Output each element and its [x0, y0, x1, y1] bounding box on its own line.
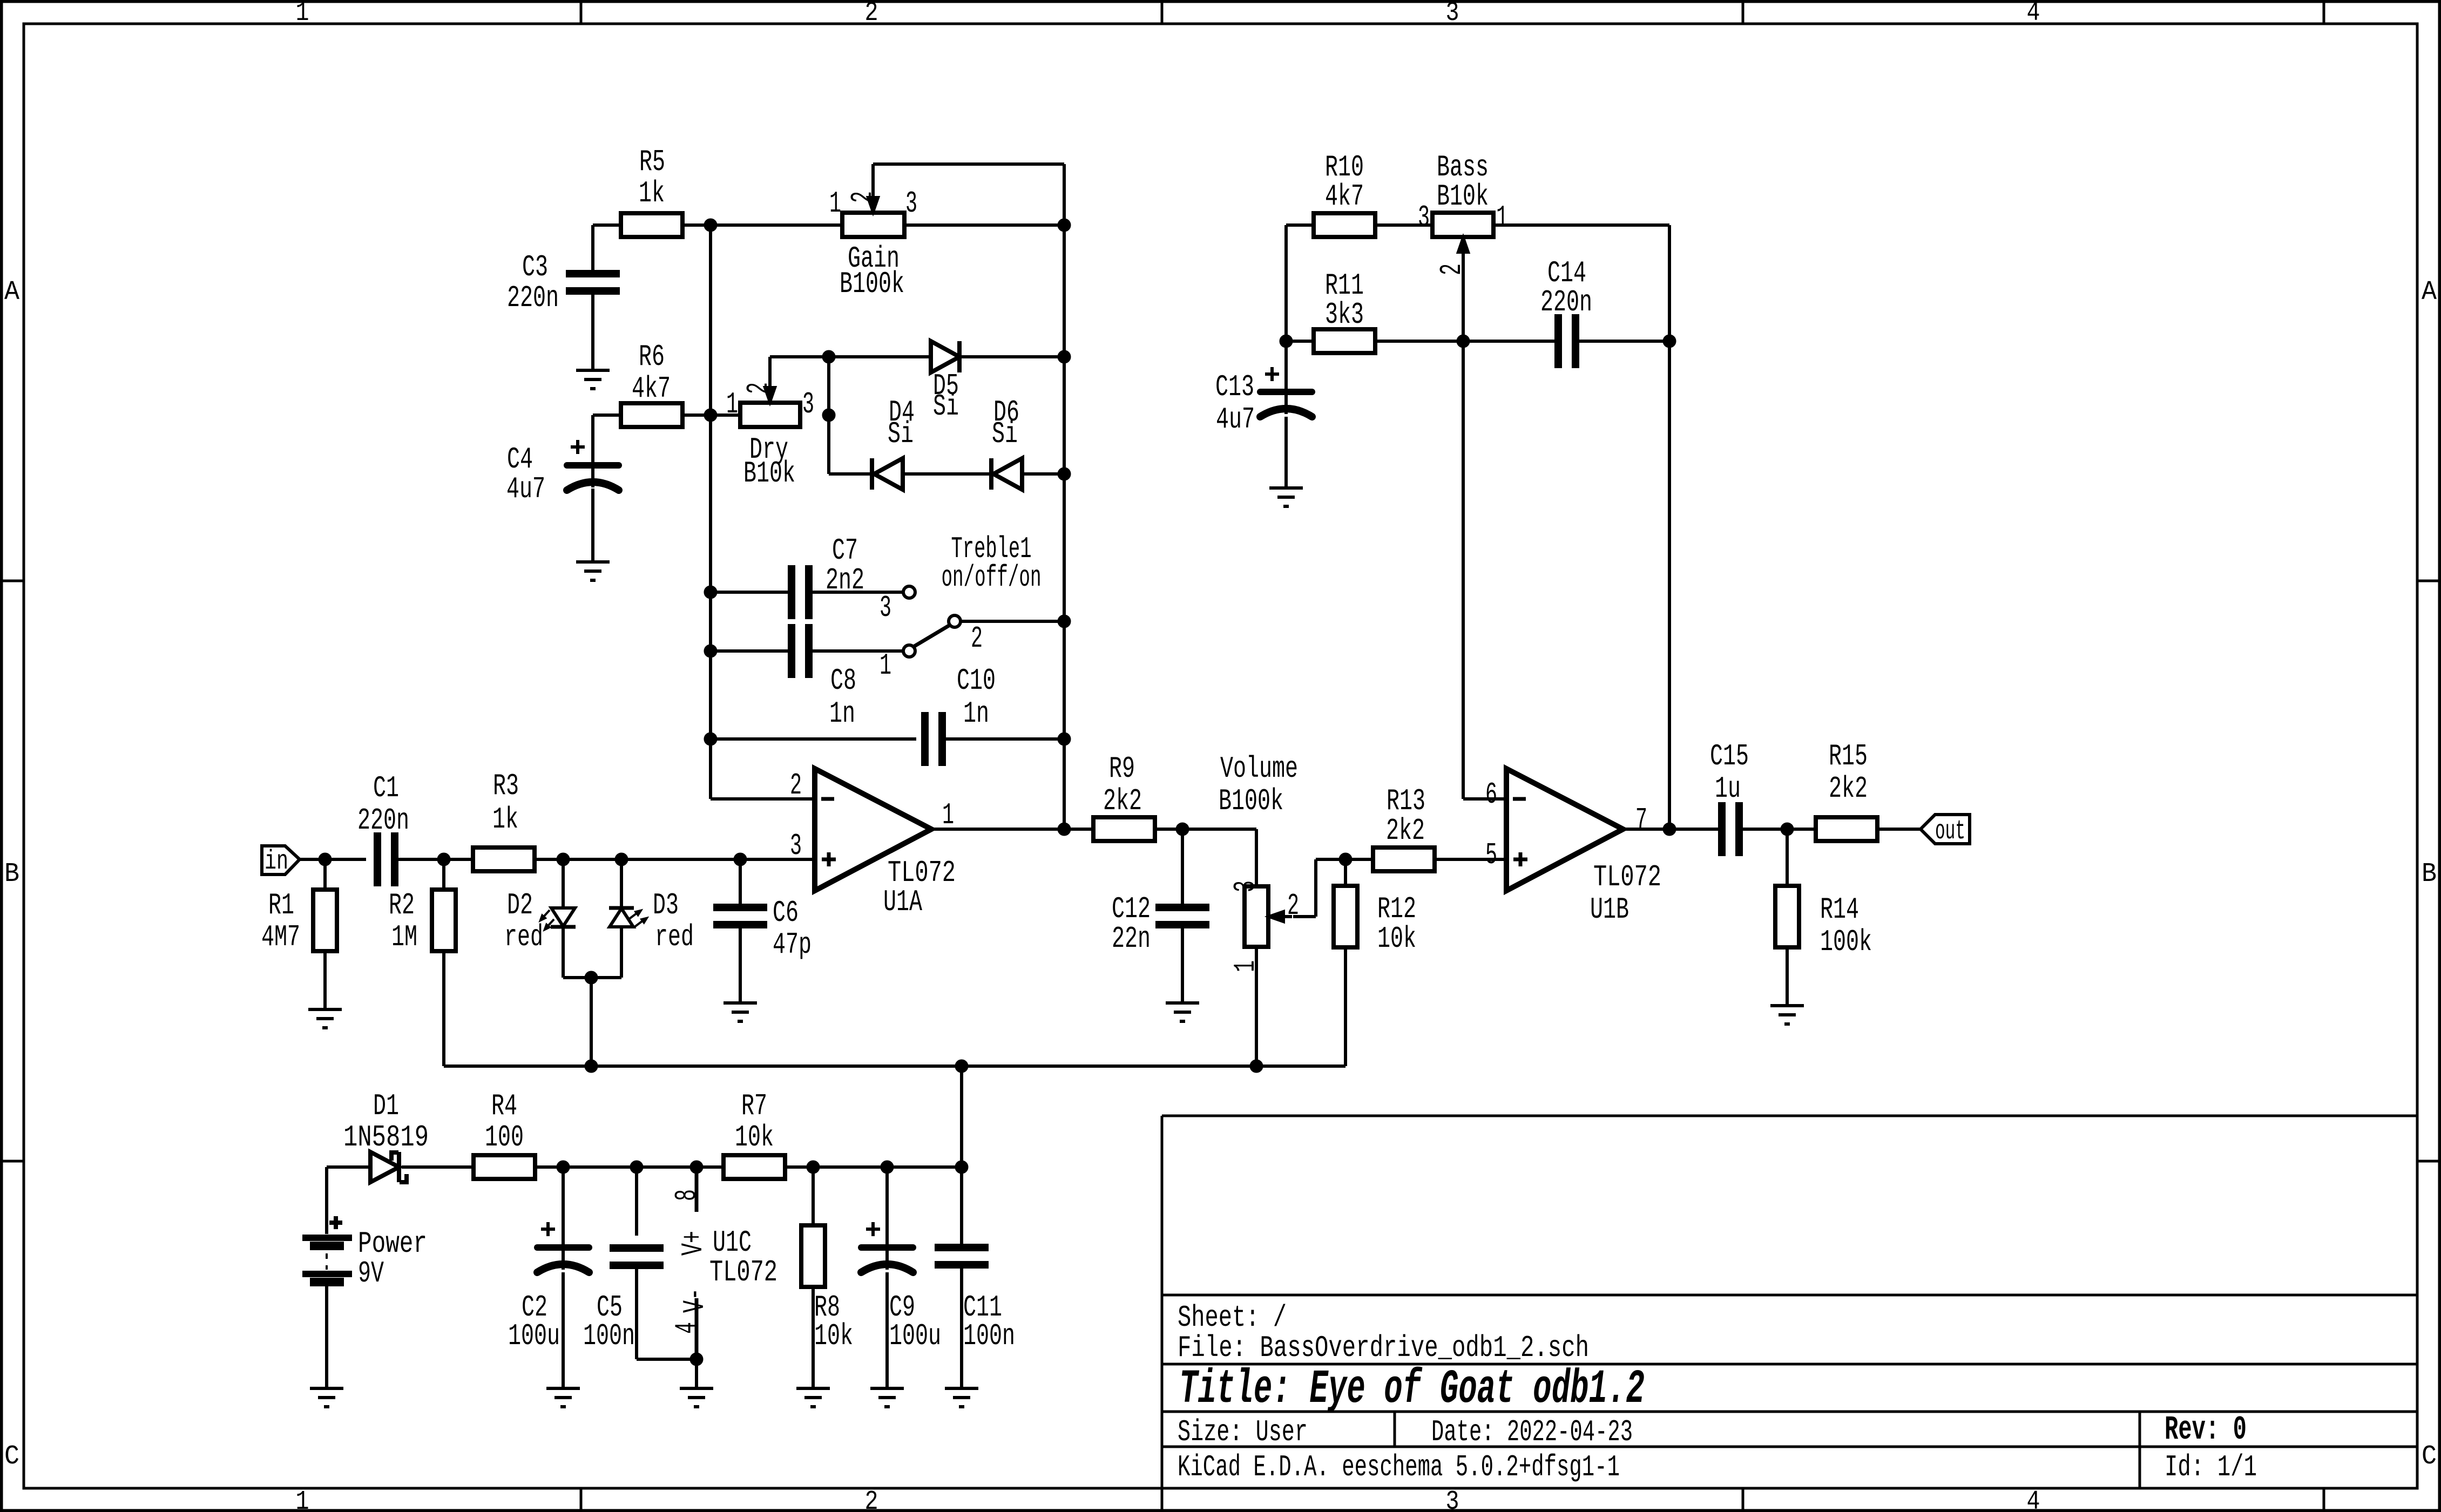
wire: left vertical bus x1316 [711, 225, 815, 799]
svg-text:3: 3 [905, 186, 917, 221]
capacitor C9 100u polarized [861, 1222, 941, 1353]
switch Treble1 on/off/on [880, 532, 1042, 683]
svg-text:B: B [2422, 859, 2437, 890]
junction: U1B out/vertical [1663, 823, 1676, 836]
svg-text:B100k: B100k [1219, 784, 1283, 818]
resistor R13 2k2 [1373, 784, 1435, 871]
svg-text:C3: C3 [522, 250, 548, 284]
diode D1 1N5819 schottky [343, 1089, 429, 1182]
diode D4 Si [872, 395, 915, 490]
ground under R1 [308, 1009, 342, 1028]
svg-text:1k: 1k [639, 176, 665, 211]
ground under C11 [945, 1388, 978, 1407]
wire: C8 to switch pin1 [812, 649, 903, 653]
capacitor C5 100n [583, 1248, 664, 1353]
svg-text:2: 2 [865, 0, 878, 29]
svg-text:R6: R6 [639, 340, 665, 374]
op-amp U1B TL072 [1485, 769, 1661, 927]
svg-text:2k2: 2k2 [1103, 784, 1142, 818]
svg-text:V+: V+ [676, 1231, 711, 1256]
wire: D4 to D6 [903, 472, 991, 476]
svg-text:1: 1 [1496, 200, 1508, 235]
wire: vref drop to power row [960, 1066, 963, 1167]
svg-text:5: 5 [1485, 838, 1497, 872]
svg-text:R5: R5 [639, 145, 665, 179]
wire: C15 to R15 [1742, 828, 1816, 831]
wire: right vertical to U1B out [1668, 341, 1671, 829]
wire: R6 right [682, 413, 740, 417]
svg-text:3: 3 [1418, 200, 1430, 235]
svg-text:Rev: 0: Rev: 0 [2165, 1411, 2247, 1449]
LED D3 red [609, 888, 694, 954]
ground under C4 [576, 562, 610, 580]
wire: volume wiper [1293, 859, 1345, 917]
wire: C13 top stub [1284, 341, 1288, 414]
title block: date [1431, 1415, 1633, 1449]
wire: R11 to C14 [1375, 340, 1555, 343]
junction: dry wiper/D5 [822, 350, 835, 363]
battery Power 9V [302, 1216, 427, 1291]
ground under R8 [796, 1388, 830, 1407]
wire: vref rail right [962, 1064, 1256, 1068]
ground under C2 [546, 1388, 580, 1407]
svg-text:4k7: 4k7 [1325, 179, 1364, 214]
wire: D3 bottom [591, 927, 621, 978]
potentiometer Dry B10k [726, 379, 814, 491]
ground under C6 [723, 1003, 757, 1021]
wire: R5 right [682, 223, 711, 227]
svg-text:1: 1 [829, 186, 841, 221]
wire: D1 to R4 [402, 1165, 474, 1169]
potentiometer Gain B100k [829, 186, 917, 301]
wire: C11 top stub [960, 1167, 963, 1244]
svg-text:4k7: 4k7 [632, 371, 671, 406]
svg-text:B10k: B10k [743, 456, 795, 491]
svg-text:2n2: 2n2 [826, 563, 864, 598]
wire: R15 to out label [1877, 828, 1921, 831]
title block: rev [2165, 1411, 2247, 1449]
wire: R10 left corner down [1286, 225, 1315, 341]
capacitor C3 220n [507, 250, 620, 315]
svg-text:Sheet: /: Sheet: / [1178, 1300, 1287, 1335]
svg-text:2k2: 2k2 [1829, 771, 1868, 806]
title block: size [1178, 1415, 1308, 1449]
global label: in port [262, 846, 300, 877]
svg-text:4M7: 4M7 [261, 920, 300, 954]
diode D5 Si [931, 341, 959, 424]
wire: C3 to ground [591, 295, 594, 370]
wire: U1C pin4 gnd stub [695, 1359, 698, 1388]
junction: R8 top [807, 1161, 820, 1174]
svg-text:3: 3 [1446, 1487, 1459, 1512]
wire: C14 to right vertical [1579, 340, 1669, 343]
wire: C12 to ground [1181, 928, 1184, 1003]
wire: C2 top stub [562, 1167, 565, 1270]
capacitor C7 2n2 [792, 533, 864, 619]
svg-text:220n: 220n [357, 803, 409, 838]
junction: D2/D3 join [585, 971, 598, 984]
svg-text:8: 8 [670, 1189, 704, 1201]
junction: C9 top [881, 1161, 894, 1174]
junction: C10 right [1058, 733, 1071, 745]
resistor R7 10k [723, 1089, 785, 1179]
svg-text:1: 1 [726, 387, 738, 422]
wire: C11 to ground [960, 1269, 963, 1388]
wire: C5 top stub [635, 1167, 638, 1236]
svg-text:3: 3 [802, 387, 814, 422]
svg-text:2: 2 [1287, 889, 1299, 923]
svg-text:100n: 100n [583, 1319, 635, 1353]
wire: R2 bottom to vref rail [444, 951, 591, 1066]
wire: R4 to R7 [535, 1165, 725, 1169]
wire: R6 left + down to C4 [593, 415, 621, 487]
resistor R14 100k [1775, 886, 1872, 959]
svg-text:U1B: U1B [1590, 892, 1629, 927]
svg-text:on/off/on: on/off/on [942, 560, 1042, 595]
wire: D3 top stub [620, 859, 623, 908]
title block: file line [1178, 1331, 1589, 1365]
svg-text:Si: Si [933, 389, 959, 424]
svg-text:4: 4 [670, 1322, 704, 1334]
junction: vref at R7/R8 [955, 1060, 968, 1073]
junction: D4-D6/right vertical [1058, 467, 1071, 480]
capacitor C11 100n [935, 1247, 1015, 1353]
svg-text:1: 1 [942, 798, 954, 832]
wire: volume pin1 to vref [1255, 947, 1258, 1066]
wire: C5 bottom to U1C pin4 [637, 1269, 697, 1359]
svg-text:C: C [4, 1441, 19, 1472]
wire: D5 cathode to vertical [959, 355, 1064, 358]
wire: C12 top stub [1181, 829, 1184, 904]
svg-text:10k: 10k [814, 1319, 853, 1353]
svg-text:4: 4 [2027, 0, 2040, 29]
resistor R6 4k7 [621, 340, 682, 427]
wire: switch pin2 to vertical [961, 620, 1064, 623]
junction: U1C pin8 [690, 1161, 703, 1174]
wire: R8 to ground [812, 1286, 815, 1388]
wire: vref rail to R12 [1256, 947, 1345, 1066]
capacitor C1 220n [357, 771, 409, 886]
junction: switch/right vertical [1058, 615, 1071, 628]
svg-text:C: C [2422, 1441, 2437, 1472]
svg-text:7: 7 [1635, 803, 1647, 837]
wire: R1 top stub [323, 859, 327, 890]
svg-text:A: A [4, 277, 19, 308]
svg-text:100k: 100k [1820, 925, 1872, 959]
resistor R9 2k2 [1093, 751, 1155, 841]
svg-text:220n: 220n [507, 281, 559, 315]
svg-text:V-: V- [678, 1288, 712, 1313]
svg-text:6: 6 [1485, 777, 1497, 812]
svg-text:47p: 47p [773, 927, 812, 962]
svg-text:R9: R9 [1109, 751, 1135, 786]
wire: C2 to ground [562, 1272, 565, 1388]
wire: right vertical bus x1971 [1063, 225, 1066, 829]
wire: C6 to ground [739, 928, 742, 1003]
svg-text:2: 2 [741, 382, 776, 394]
svg-text:100n: 100n [963, 1319, 1015, 1353]
svg-text:100u: 100u [508, 1319, 560, 1353]
svg-text:C6: C6 [773, 896, 799, 930]
svg-text:3k3: 3k3 [1325, 297, 1364, 332]
wire: R13 to U1B pin5 [1435, 858, 1506, 861]
wire: U1A out to R9 [931, 828, 1094, 831]
svg-text:out: out [1935, 816, 1965, 847]
capacitor C10 1n [925, 663, 996, 766]
junction: C7 [704, 586, 717, 599]
svg-text:4u7: 4u7 [1216, 402, 1255, 437]
junction: C10 left [704, 733, 717, 745]
junction: R11 left [1280, 335, 1293, 348]
svg-text:2k2: 2k2 [1386, 813, 1425, 848]
wire: Dry pin3 vertical [829, 357, 872, 474]
capacitor C13 4u7 polarized [1215, 367, 1312, 437]
wire: R1 to ground [323, 951, 327, 1009]
svg-text:1: 1 [296, 1487, 309, 1512]
capacitor C4 4u7 polarized [506, 440, 619, 506]
junction: C11 top [955, 1161, 968, 1174]
ground under C13 [1269, 488, 1303, 506]
junction: D3 top [615, 853, 628, 866]
op-amp U1A TL072 [790, 768, 956, 919]
ground under battery [310, 1388, 343, 1407]
svg-text:R1: R1 [268, 888, 294, 923]
resistor R5 1k [621, 145, 682, 237]
svg-text:TL072: TL072 [709, 1255, 777, 1290]
svg-text:C1: C1 [373, 771, 399, 805]
capacitor C2 100u polarized [508, 1222, 589, 1353]
svg-text:Si: Si [888, 417, 914, 451]
title block: sheet line [1178, 1300, 1287, 1335]
svg-text:red: red [504, 920, 543, 954]
wire: R2 top stub [442, 859, 445, 890]
svg-text:4u7: 4u7 [506, 472, 545, 506]
junction: C6 top [734, 853, 747, 866]
capacitor C12 22n [1112, 892, 1209, 956]
svg-text:C10: C10 [957, 663, 996, 698]
resistor R2 1M [389, 888, 456, 954]
junction: R6/vertical [704, 409, 717, 422]
svg-text:D3: D3 [653, 888, 679, 923]
wire: D5 anode [829, 355, 931, 358]
capacitor C15 1u [1710, 739, 1749, 856]
svg-text:Volume: Volume [1220, 751, 1298, 786]
wire: Gain wiper up and over [873, 164, 1064, 225]
wire: D2 bottom [563, 927, 591, 978]
potentiometer Bass B10k [1418, 150, 1508, 275]
wire: R7 right [785, 1165, 962, 1169]
svg-text:TL072: TL072 [1593, 860, 1661, 894]
svg-text:2: 2 [865, 1487, 878, 1512]
wire: Bass pin1 to right vertical [1493, 225, 1669, 341]
svg-text:C13: C13 [1215, 370, 1254, 404]
svg-text:U1A: U1A [883, 885, 922, 919]
wire: R14 top stub [1786, 829, 1789, 886]
svg-text:10k: 10k [735, 1120, 774, 1155]
wire: R8 top stub [812, 1167, 815, 1225]
svg-text:3: 3 [1446, 0, 1459, 29]
wire: C9 to ground [885, 1272, 889, 1388]
junction: vref at volume [1250, 1060, 1263, 1073]
wire: R10 to Bass pin3 [1375, 223, 1432, 227]
svg-text:9V: 9V [358, 1256, 384, 1291]
svg-text:B100k: B100k [840, 267, 904, 301]
capacitor C6 47p [713, 896, 812, 962]
wire: D2/D3 join to vref rail [590, 978, 593, 1066]
svg-text:R4: R4 [491, 1089, 517, 1123]
diode D6 Si [991, 395, 1022, 490]
ground under R14 [1770, 1006, 1804, 1024]
junction: R11/Bass wiper [1457, 335, 1470, 348]
junction: Dry pin3 [822, 409, 835, 422]
ground under C3 [576, 370, 610, 389]
svg-text:D2: D2 [507, 888, 533, 923]
svg-text:1n: 1n [963, 696, 989, 731]
svg-text:2: 2 [971, 621, 983, 656]
op-amp U1C TL072 power unit [670, 1167, 777, 1359]
svg-text:B10k: B10k [1437, 179, 1489, 214]
junction: D2 top [557, 853, 570, 866]
resistor R8 10k [801, 1225, 853, 1353]
LED D2 red [504, 888, 576, 954]
svg-text:R2: R2 [389, 888, 415, 923]
svg-text:10k: 10k [1377, 921, 1416, 956]
junction: C15/R14 [1781, 823, 1794, 836]
junction: R9/C12 [1176, 823, 1189, 836]
junction: Gain pin3 vertical [1058, 219, 1071, 232]
junction: C5 top [630, 1161, 643, 1174]
junction: U1C pin4 [690, 1353, 703, 1366]
svg-text:R14: R14 [1820, 892, 1859, 927]
svg-text:1k: 1k [492, 802, 518, 837]
svg-text:B: B [4, 859, 19, 890]
wire: battery top to D1 [327, 1167, 370, 1234]
svg-text:1: 1 [880, 648, 891, 683]
resistor R10 4k7 [1314, 150, 1375, 237]
wire: R9 to volume [1155, 829, 1256, 886]
svg-text:2: 2 [846, 191, 880, 203]
wire: battery to ground [325, 1285, 328, 1388]
resistor R3 1k [473, 769, 535, 871]
svg-text:3: 3 [1228, 880, 1263, 892]
svg-text:1N5819: 1N5819 [343, 1120, 429, 1155]
wire: in to C1 [300, 858, 366, 861]
junction: vref at D2/D3 [585, 1060, 598, 1073]
junction: R2 top [437, 853, 450, 866]
svg-text:Si: Si [992, 417, 1018, 451]
svg-text:A: A [2422, 277, 2437, 308]
svg-text:in: in [265, 846, 288, 877]
title block frame [1162, 1116, 2417, 1488]
wire: U1B out to C15 [1623, 828, 1719, 831]
wire: C1 to R3 [395, 858, 474, 861]
svg-text:R3: R3 [493, 769, 519, 803]
wire: C8 left [711, 649, 788, 653]
capacitor C8 1n [792, 624, 856, 731]
wire: to R13 [1345, 858, 1374, 861]
svg-text:4: 4 [2027, 1487, 2040, 1512]
svg-text:1u: 1u [1715, 771, 1741, 806]
svg-text:Size: User: Size: User [1178, 1415, 1308, 1449]
wire: D2 top stub [562, 859, 565, 908]
junction: C2 top [557, 1161, 570, 1174]
junction: C14 right [1663, 335, 1676, 348]
svg-text:Date: 2022-04-23: Date: 2022-04-23 [1431, 1415, 1633, 1449]
svg-text:R7: R7 [741, 1089, 767, 1123]
svg-text:red: red [655, 920, 694, 954]
wire: R12 top stub [1344, 859, 1347, 886]
wire: C9 top stub [885, 1167, 889, 1270]
svg-text:1M: 1M [391, 920, 417, 954]
resistor R12 10k [1334, 886, 1416, 956]
wire: C13 to ground [1284, 417, 1288, 488]
svg-text:D1: D1 [373, 1089, 399, 1123]
title block: id [2165, 1450, 2257, 1484]
wire: R5 junction to Gain pin1 [711, 223, 842, 227]
svg-text:C8: C8 [830, 663, 856, 698]
title block: title [1179, 1363, 1645, 1416]
wire: C10 left [711, 737, 916, 741]
svg-text:22n: 22n [1112, 921, 1151, 956]
junction: R12 top [1339, 853, 1352, 866]
svg-text:100u: 100u [889, 1319, 941, 1353]
svg-text:C15: C15 [1710, 739, 1749, 774]
wire: C10 right [942, 737, 1064, 741]
svg-text:Title: Eye of Goat odb1.2: Title: Eye of Goat odb1.2 [1179, 1363, 1645, 1416]
capacitor C14 220n [1540, 256, 1592, 368]
svg-text:100: 100 [485, 1120, 524, 1155]
potentiometer Volume B100k [1219, 751, 1299, 972]
global label: out port [1921, 815, 1970, 847]
svg-text:R15: R15 [1829, 739, 1868, 774]
junction: in/R1 [319, 853, 332, 866]
svg-text:2: 2 [1435, 263, 1469, 275]
title block: kicad version [1178, 1450, 1620, 1484]
wire: C7 to switch pin3 [812, 591, 903, 594]
junction: C8 [704, 645, 717, 657]
svg-text:1: 1 [1228, 960, 1263, 972]
wire: R14 to ground [1786, 947, 1789, 1006]
wire: R11 left stub [1286, 340, 1315, 343]
junction: R5/vertical [704, 219, 717, 232]
resistor R15 2k2 [1816, 739, 1877, 841]
svg-text:3: 3 [790, 829, 802, 863]
ground under C12 [1166, 1003, 1199, 1021]
resistor R11 3k3 [1314, 268, 1375, 353]
wire: C7 left [711, 591, 788, 594]
svg-text:220n: 220n [1540, 285, 1592, 320]
wire: R3 to U1A pin3 [534, 858, 815, 861]
svg-text:1: 1 [296, 0, 309, 29]
svg-text:Id: 1/1: Id: 1/1 [2165, 1450, 2257, 1484]
svg-text:KiCad E.D.A. eeschema 5.0.2+d: KiCad E.D.A. eeschema 5.0.2+dfsg1-1 [1178, 1450, 1620, 1484]
wire: vref rail middle [591, 1064, 962, 1068]
ground under U1C [680, 1388, 713, 1407]
resistor R4 100 [474, 1089, 535, 1179]
svg-text:1n: 1n [829, 696, 855, 731]
resistor R1 4M7 [261, 888, 337, 954]
junction: D5/right vertical [1058, 350, 1071, 363]
wire: D6 to vertical [1022, 472, 1064, 476]
junction: out/right vertical [1058, 823, 1071, 836]
svg-text:2: 2 [790, 768, 802, 803]
svg-text:3: 3 [880, 591, 891, 625]
wire: Dry wiper up/right [770, 357, 829, 403]
wire: Bass wiper down [1463, 249, 1506, 799]
wire: Gain pin3 to right vertical [904, 223, 1064, 227]
wire: R5 left + down to C3 [593, 225, 621, 271]
svg-text:File: BassOverdrive_odb1_2.sch: File: BassOverdrive_odb1_2.sch [1178, 1331, 1589, 1365]
